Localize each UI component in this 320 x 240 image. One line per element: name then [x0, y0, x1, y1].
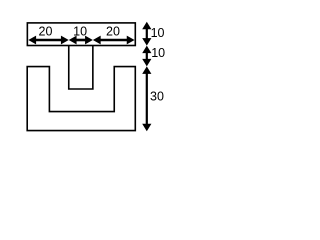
- arrowhead up of vertical 30: [142, 66, 151, 74]
- dimension line 20 right shaft: [100, 39, 127, 42]
- arrowhead up of vertical 10 upper: [142, 22, 151, 30]
- dimension line 10 middle shaft: [76, 39, 85, 42]
- dimension arrowhead right of 20 right: [127, 36, 135, 45]
- dimension arrowhead right of 10 middle: [85, 36, 93, 45]
- svg-text:20: 20: [39, 24, 53, 38]
- arrowhead up of vertical 10 lower: [142, 46, 151, 54]
- vertical dimension 10 lower shaft: [146, 53, 148, 60]
- dimension arrowhead left of 20 right: [93, 36, 101, 45]
- svg-text:10: 10: [151, 46, 165, 60]
- svg-text:20: 20: [106, 24, 120, 38]
- arrowhead down of vertical 30: [142, 124, 151, 132]
- vertical dimension 10 upper shaft: [146, 29, 148, 39]
- dimension arrowhead right of 20 left: [61, 36, 69, 45]
- dimension arrowhead left of 10 middle: [69, 36, 77, 45]
- arrowhead down of vertical 10 upper: [142, 38, 151, 46]
- dimension arrowhead left of 20 left: [28, 36, 36, 45]
- svg-text:30: 30: [150, 90, 164, 104]
- svg-text:10: 10: [151, 26, 165, 40]
- U-block outline: [27, 67, 135, 131]
- tab outline: [69, 46, 93, 89]
- svg-text:10: 10: [73, 24, 87, 38]
- arrowhead down of vertical 10 lower: [142, 59, 151, 67]
- vertical dimension 30 shaft: [146, 73, 148, 124]
- top plate outline: [27, 23, 135, 46]
- dimension line 20 left shaft: [36, 39, 62, 42]
